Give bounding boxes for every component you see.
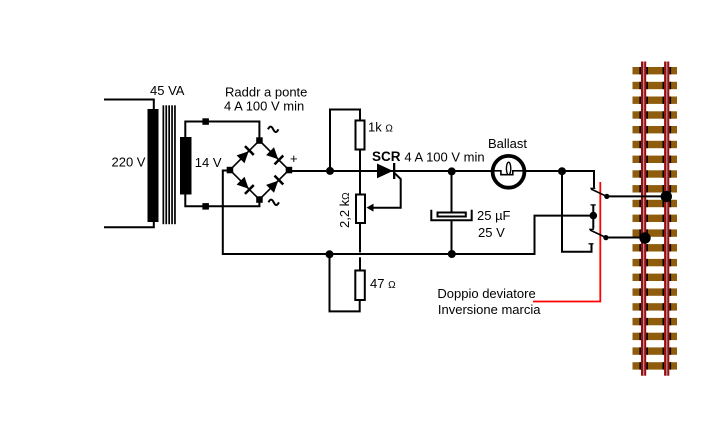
switch 1 pivot bbox=[604, 194, 609, 199]
transformer primary winding bbox=[148, 109, 159, 222]
node dot divider top bbox=[326, 167, 334, 175]
svg-text:Ballast: Ballast bbox=[488, 136, 527, 151]
wire 1k to pot bbox=[359, 151, 361, 194]
wire gate from wiper to SCR bbox=[372, 173, 401, 207]
contact tick sw1 upper throw bbox=[590, 187, 595, 189]
wire switch cross loop bbox=[562, 175, 592, 252]
wire pot bottom crossing rail with gap bbox=[359, 224, 361, 270]
wire stub below common node bbox=[592, 216, 594, 229]
switch 2 pivot bbox=[603, 235, 608, 240]
svg-text:220 V: 220 V bbox=[112, 155, 146, 170]
transformer core bbox=[163, 105, 176, 224]
node dot right rail bbox=[661, 191, 672, 202]
svg-text:Doppio deviatore: Doppio deviatore bbox=[437, 286, 535, 301]
wire secondary top lead bbox=[185, 122, 259, 141]
wire switch1 to right rail bbox=[607, 195, 666, 197]
switch 2 blade bbox=[590, 230, 606, 237]
contact tick sw2 upper throw bbox=[589, 228, 594, 230]
node square bridge left bbox=[227, 167, 234, 174]
wire secondary bottom lead bbox=[185, 195, 259, 207]
bridge rectifier diamond bbox=[230, 141, 289, 200]
node square bridge top bbox=[256, 137, 263, 144]
svg-text:4 A 100 V min: 4 A 100 V min bbox=[404, 150, 484, 165]
SCR bbox=[377, 163, 395, 179]
node dot rail 47 bbox=[326, 250, 334, 258]
svg-text:Raddr a ponte: Raddr a ponte bbox=[225, 85, 307, 100]
contact tick sw1 lower throw bbox=[591, 204, 596, 206]
wire 47 bottom loop to rail bbox=[330, 254, 360, 311]
wire 1k branch top bbox=[330, 110, 360, 171]
ac tilde top bbox=[268, 127, 278, 132]
diode bridge bottom-right bbox=[266, 175, 284, 193]
node dot switch common bbox=[590, 212, 598, 220]
svg-text:25 V: 25 V bbox=[478, 225, 505, 240]
wire main positive line bbox=[289, 170, 492, 172]
ac tilde bottom bbox=[269, 200, 279, 205]
diode bridge bottom-left bbox=[236, 176, 254, 194]
node square bridge right bbox=[286, 167, 293, 174]
diode bridge top-right bbox=[266, 147, 284, 165]
wire stub above common node bbox=[592, 205, 594, 216]
red callout line to switches bbox=[533, 182, 600, 302]
rail left bbox=[641, 62, 646, 376]
svg-text:25 µF: 25 µF bbox=[477, 208, 511, 223]
svg-text:45 VA: 45 VA bbox=[150, 83, 185, 98]
node square secondary bottom bbox=[202, 203, 209, 210]
wire primary bottom lead bbox=[104, 222, 154, 227]
node square bridge bottom bbox=[256, 196, 263, 203]
railroad track ties bbox=[633, 67, 678, 370]
svg-text:SCR: SCR bbox=[372, 149, 401, 164]
lamp Ballast bbox=[492, 156, 526, 188]
node dot cap bottom bbox=[448, 250, 456, 258]
pot wiper arrow bbox=[367, 204, 374, 212]
rail right bbox=[664, 62, 669, 376]
svg-text:+: + bbox=[290, 151, 298, 166]
node dot lamp out bbox=[558, 167, 566, 175]
wire switch2 to left rail bbox=[606, 237, 645, 239]
potentiometer 2,2k body bbox=[356, 195, 365, 224]
node dot left rail bbox=[639, 232, 650, 243]
switch 1 blade bbox=[591, 189, 607, 196]
wire primary top lead bbox=[104, 100, 154, 110]
svg-text:Inversione marcia: Inversione marcia bbox=[438, 302, 541, 317]
wire lamp to switch bbox=[525, 171, 594, 188]
transformer secondary winding bbox=[180, 137, 192, 195]
svg-text:14 V: 14 V bbox=[195, 155, 222, 170]
contact tick sw2 lower throw bbox=[589, 243, 594, 245]
capacitor 25uF bbox=[431, 172, 471, 253]
node dot cap top bbox=[448, 167, 456, 175]
resistor 47 body bbox=[355, 271, 365, 301]
svg-text:4 A 100 V min: 4 A 100 V min bbox=[224, 99, 304, 114]
node square secondary top bbox=[202, 118, 209, 125]
diode bridge top-left bbox=[236, 145, 254, 163]
wire bridge minus to bottom rail and to switch common bbox=[223, 171, 594, 255]
resistor 1k body bbox=[356, 121, 365, 150]
